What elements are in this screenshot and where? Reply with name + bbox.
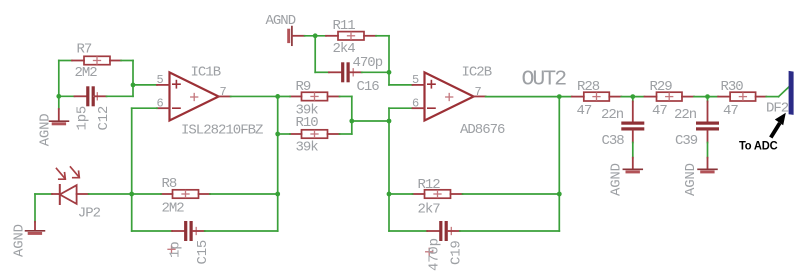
capacitor C15 plates [184,221,193,241]
wire C38 to AGND [632,143,634,158]
wire R7 top left [59,60,72,62]
wire vertical x=389 feedback [388,108,390,231]
svg-text:47: 47 [652,103,667,119]
resistor R10 pin right [328,133,340,135]
resistor R10 body [302,130,328,138]
junction node E (JP2/R8/pin6) [129,192,134,197]
capacitor C19 pin right [448,230,460,232]
junction node K (OUT2) [557,94,562,99]
capacitor C38 pin top [632,102,634,122]
resistor R10 pin left [290,133,302,135]
ground AGND (under C39) pin [707,158,709,169]
resistor R30 origin cross [739,93,746,100]
connector DF2 pin bar [789,71,794,115]
svg-text:C39: C39 [675,133,698,149]
wire net N$5 vertical left of R7 [58,61,60,97]
capacitor C12 pin left [75,95,87,97]
resistor R9 pin left [290,95,302,97]
op-amp IC1B pin 5 stub [157,84,170,86]
resistor R12 origin cross [434,191,441,198]
resistor R9 origin cross [311,93,318,100]
wire JP2 anode left [35,193,52,195]
resistor R11 pin right [364,35,376,37]
wire C39 to AGND [707,143,709,158]
resistor R8 pin left [161,193,173,195]
svg-text:47: 47 [577,103,592,119]
wire feedback vertical x=131.7 [131,108,133,231]
svg-text:R10: R10 [296,115,319,131]
svg-text:R7: R7 [77,41,92,57]
wire AGND stub top-left [58,96,60,109]
junction node G (AGND/R11) [313,33,318,38]
junction node R10 left [275,132,280,137]
svg-text:39k: 39k [296,140,319,156]
resistor R8 body [173,190,199,198]
wire R30 to DF2 [766,96,778,98]
capacitor C16 origin cross [350,69,357,76]
capacitor C38 top wire [632,97,634,102]
resistor R9 pin right [328,95,340,97]
capacitor C39 pin bottom [707,131,709,143]
wire node to R10 [278,133,290,135]
op-amp IC2B origin cross [446,94,453,101]
capacitor C38 pin bottom [632,131,634,143]
resistor R7 origin cross [94,57,101,64]
ground AGND (bottom-left) symbol [26,231,45,234]
capacitor C19 origin cross [448,228,455,235]
LED JP2 triangle [60,185,77,204]
svg-text:AGND: AGND [38,113,54,146]
capacitor C15 pin right [193,230,205,232]
op-amp IC2B pin 7 stub [474,95,486,97]
svg-text:2k7: 2k7 [418,202,441,218]
svg-text:C19: C19 [449,240,465,265]
junction node F (R8 right) [275,192,280,197]
wire R12 right [463,193,560,195]
resistor R10 origin cross [311,131,318,138]
op-amp IC2B body [425,72,474,120]
svg-text:To ADC: To ADC [739,139,778,153]
svg-text:470p: 470p [353,55,383,71]
svg-text:5: 5 [412,73,419,87]
resistor R30 pin left [718,96,730,98]
resistor R11 pin left [326,35,338,37]
wire to R12 left [389,193,413,195]
svg-text:7: 7 [475,85,482,99]
svg-text:R28: R28 [577,79,600,95]
resistor R29 origin cross [666,93,673,100]
svg-text:2M2: 2M2 [75,65,98,81]
LED JP2 pin right [77,193,89,195]
capacitor C16 plates [341,62,350,82]
svg-text:IC1B: IC1B [191,65,221,81]
capacitor C39 top wire [707,97,709,102]
wire vertical x=315.2 [314,36,316,73]
junction node N (R12 left) [387,192,392,197]
wire JP2 down to AGND [34,194,36,222]
svg-text:AD8676: AD8676 [460,122,505,138]
wire R29 to R30 [694,96,718,98]
svg-text:ISL28210FBZ: ISL28210FBZ [181,123,263,139]
resistor R9 body [302,92,328,100]
resistor R29 body [657,92,683,101]
wire R8 right to node F [210,193,278,195]
wire output vertical x=277.7 [277,96,279,231]
op-amp IC2B minus input mark [428,107,435,109]
ground AGND (top-middle) pin [293,35,305,37]
wire R28 to R29 [621,96,644,98]
wire C16 left [315,71,329,73]
capacitor C12 origin cross [94,93,101,100]
junction node I (R9/R10 mid) [349,119,354,124]
wire vertical x=389 top [388,36,390,85]
svg-text:C38: C38 [602,133,625,149]
svg-text:OUT2: OUT2 [522,68,567,92]
wire IC1B pin6 to feedback vertical [132,107,157,109]
wire node E to R8 [132,193,161,195]
wire AGND to R11 [305,35,327,37]
capacitor C12 pin right [95,95,107,97]
ground AGND (top-left) pin [58,109,60,121]
wire node B to IC1B pin5 [133,84,157,86]
svg-text:R30: R30 [721,79,744,95]
op-amp IC2B pin 5 stub [413,84,425,86]
svg-text:C16: C16 [357,79,380,95]
op-amp IC1B origin cross [191,94,198,101]
ground AGND (top-left) symbol [50,121,69,124]
resistor R30 pin right [756,96,767,98]
junction node O (R12 right) [557,192,562,197]
resistor R12 body [425,190,451,198]
resistor R8 pin right [199,193,211,195]
junction node M (C39) [705,94,710,99]
capacitor C15 origin cross 2 [168,246,175,253]
LED JP2 cathode bar [59,185,61,204]
wire C15 left [132,230,172,232]
resistor R28 pin left [572,96,584,98]
ground AGND (under C38) pin [632,158,634,169]
resistor R11 origin cross [348,32,355,39]
wire C12 left [59,95,75,97]
svg-text:1p5: 1p5 [75,106,91,131]
wire C12 right [107,95,134,97]
svg-text:AGND: AGND [683,163,699,196]
resistor R28 body [584,92,610,101]
resistor R7 body [84,56,110,64]
wire C16 right [362,71,389,73]
junction node H (C16 right) [387,70,392,75]
wire JP2 to node E [89,193,132,195]
LED JP2 light arrow 1 [57,169,66,180]
resistor R7 pin left [72,60,84,62]
resistor R29 pin right [682,96,694,98]
svg-text:JP2: JP2 [78,206,101,222]
svg-text:2M2: 2M2 [162,201,185,217]
resistor R29 pin left [645,96,657,98]
wire C15 right [205,230,278,232]
svg-text:7: 7 [220,85,227,99]
capacitor C38 plates [621,122,644,131]
junction node A [56,94,61,99]
svg-text:R8: R8 [162,176,177,192]
wire C12 up to pin5 node [132,85,134,96]
svg-text:22n: 22n [601,107,624,123]
svg-text:C12: C12 [96,106,112,131]
LED JP2 pin left [52,193,60,195]
svg-text:R12: R12 [418,177,441,193]
op-amp IC2B pin 6 stub [413,107,425,109]
capacitor C19 origin cross 2 [426,248,433,255]
capacitor C19 plates [439,221,448,241]
resistor R7 pin right [110,60,121,62]
op-amp IC1B pin 6 stub [157,107,170,109]
capacitor C12 plates [86,86,95,106]
svg-text:AGND: AGND [12,224,28,257]
resistor R30 body [730,92,756,101]
junction node J (pin6 net) [387,119,392,124]
svg-text:22n: 22n [674,107,697,123]
resistor R11 body [338,32,364,40]
ground AGND (under C39) symbol [698,169,717,172]
resistor R12 pin left [413,193,425,195]
svg-text:R11: R11 [333,18,356,34]
wire C19 right [460,230,560,232]
wire C19 left [389,230,427,232]
junction node output/R9 [275,94,280,99]
svg-text:5: 5 [157,73,164,87]
annotation arrow To ADC [771,113,786,138]
capacitor C39 pin top [707,102,709,122]
resistor R12 pin right [451,193,463,195]
wire vertical x=351.8 [351,96,353,134]
resistor R8 origin cross [182,191,189,198]
resistor R28 pin right [609,96,621,98]
capacitor C15 pin left [172,230,186,232]
LED JP2 light arrow 2 [71,167,80,178]
wire R10 right [340,133,352,135]
capacitor C15 origin cross [193,228,200,235]
svg-text:R29: R29 [650,79,673,95]
junction node L (C38) [630,94,635,99]
svg-text:470p: 470p [427,238,443,271]
wire IC1B output [231,95,278,97]
capacitor C16 pin left [329,71,343,73]
svg-text:1p: 1p [168,242,184,258]
svg-text:47: 47 [723,103,738,119]
op-amp IC1B minus input mark [173,107,180,109]
wire R11 right [376,35,389,37]
wire vertical x=558.5 [558,97,560,231]
svg-text:6: 6 [412,97,419,111]
capacitor C16 pin right [350,71,362,73]
svg-text:AGND: AGND [608,163,624,196]
op-amp IC1B pin 7 stub [219,95,231,97]
capacitor C39 plates [696,122,719,131]
op-amp IC1B plus input mark [173,81,180,88]
op-amp IC1B body [170,72,219,120]
resistor R28 origin cross [593,93,600,100]
junction node B pin5 [131,83,136,88]
wire R7 right to node B [121,60,133,62]
wire IC2B output to R28 [486,96,572,98]
wire diagonal to DF2 [779,86,790,96]
svg-text:AGND: AGND [266,13,296,29]
svg-text:6: 6 [157,97,164,111]
wire IC2B pin6 horizontal [389,107,413,109]
capacitor C19 pin left [427,230,441,232]
wire into IC2B pin5 [389,84,413,86]
svg-text:R9: R9 [296,79,311,95]
svg-text:C15: C15 [195,240,211,265]
wire vertical into pin5 node [132,61,134,85]
svg-text:IC2B: IC2B [462,65,492,81]
wire R9 right [340,95,352,97]
ground AGND (under C38) symbol [623,169,642,172]
ground AGND (top-middle) symbol [289,27,292,46]
wire branch to IC2B pin6 net [352,120,389,122]
ground AGND (bottom-left) pin [34,222,36,231]
op-amp IC2B plus input mark [428,81,435,88]
wire node to R9 [278,95,290,97]
